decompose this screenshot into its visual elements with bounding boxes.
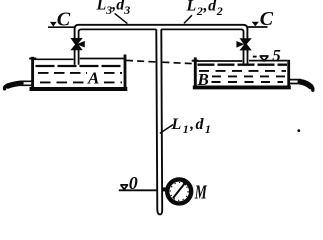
- wire: left pipe from valve into tank A: [75, 50, 79, 65]
- svg-text:B: B: [197, 70, 209, 89]
- tank A bottom: [30, 87, 128, 91]
- tank B water dashes row 1: [199, 70, 286, 72]
- tank A outlet spout tip: [5, 85, 8, 89]
- tank B left wall lip: [192, 60, 199, 62]
- dashed line between tank water levels, right of pipe L1: [162, 62, 194, 64]
- tank A top rim right of pipe: [80, 58, 124, 60]
- valve C1 (left) handle triangle pointing right: [78, 42, 85, 47]
- node C level symbol nabla (left): [50, 22, 57, 27]
- svg-text:A: A: [87, 68, 99, 87]
- tank A top rim left of pipe: [34, 58, 74, 60]
- gauge M needle: [173, 183, 185, 198]
- node 5 level symbol nabla: [260, 56, 269, 61]
- tank B water dashes row 2: [212, 75, 286, 77]
- svg-text:0: 0: [129, 173, 138, 193]
- leader line L3,d3: [115, 13, 128, 23]
- wire: horizontal pipe bottom line, left segment to tee: [79, 29, 157, 38]
- tank B outlet pipe bore lines: [290, 80, 301, 84]
- pipe L1 vertical with rounded closed bottom: [156, 29, 162, 214]
- svg-text:M: M: [194, 181, 208, 203]
- svg-text:C: C: [260, 8, 274, 30]
- tank B top rim right of pipe: [249, 60, 287, 62]
- valve C1 (left) top triangle: [71, 38, 82, 45]
- node 0 level symbol nabla: [120, 185, 128, 190]
- svg-text:5: 5: [272, 46, 281, 65]
- gauge M dial tick ring: [170, 183, 188, 201]
- node C level symbol nabla (right): [252, 22, 259, 26]
- tank A water dashes row 2: [40, 81, 122, 83]
- node 0 datum line: [119, 189, 157, 191]
- valve C1 (left) bottom triangle: [71, 43, 82, 50]
- gauge M needle arrowhead: [182, 181, 187, 186]
- tank B left wall: [194, 57, 197, 88]
- valve C2 (right) top triangle: [240, 39, 251, 46]
- leader line L2,d2: [184, 15, 192, 23]
- tank B outlet spout: [300, 82, 311, 87]
- tank A left wall lip: [29, 58, 36, 60]
- tank A outlet pipe bore lines: [21, 81, 33, 85]
- node 5 level dash: [253, 56, 257, 58]
- node C level line (left): [48, 26, 75, 28]
- tank A water surface: [36, 65, 124, 67]
- node C level line (right): [248, 26, 268, 28]
- tank B water dashes row 3: [212, 81, 284, 83]
- wire: horizontal pipe bottom line, right segment from tee: [161, 29, 243, 38]
- tank A outlet spout: [8, 83, 21, 86]
- valve C2 (right) bottom triangle: [240, 43, 251, 50]
- wire: right pipe from valve into tank B: [244, 50, 248, 64]
- tank B top rim left of pipe: [197, 60, 242, 62]
- tank B outlet spout tip: [310, 85, 313, 90]
- tank A right wall: [124, 55, 127, 91]
- wire: horizontal supply pipe top line with corners down to both valves: [75, 25, 248, 39]
- gauge M outer ring: [167, 179, 191, 203]
- leader line L1,d1: [160, 125, 173, 134]
- gauge M connection stub: [162, 187, 168, 191]
- svg-text:C: C: [57, 9, 71, 31]
- tank A water dashes row 1: [38, 72, 122, 74]
- valve C2 (right) handle triangle pointing left: [237, 42, 244, 47]
- tank B right wall: [287, 60, 290, 89]
- tank A left wall: [31, 57, 34, 90]
- dashed line between tank water levels, left of pipe L1: [126, 60, 157, 62]
- stray ink dot: [297, 129, 300, 132]
- tank B bottom: [193, 85, 291, 89]
- tank B water surface: [198, 64, 288, 66]
